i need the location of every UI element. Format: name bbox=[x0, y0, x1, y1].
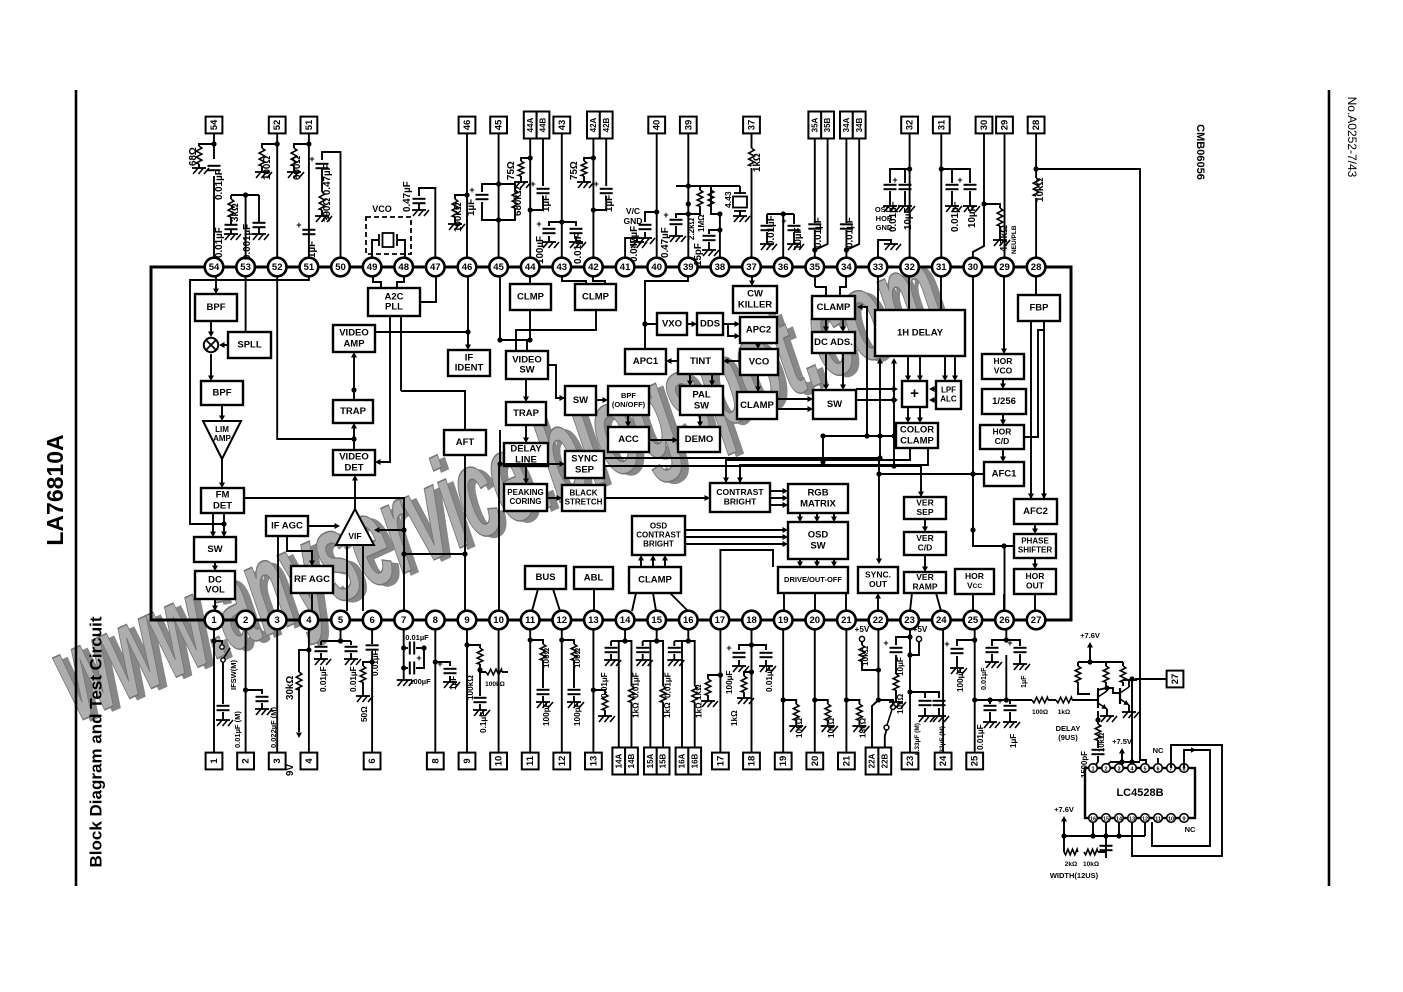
block FM DET bbox=[201, 488, 244, 513]
wire pin16 split bbox=[682, 629, 691, 747]
svg-text:TINT: TINT bbox=[690, 356, 711, 367]
wire 35A to pin35 bbox=[812, 139, 817, 258]
code CMB06056 bbox=[1194, 124, 1206, 180]
block BPF upper bbox=[195, 294, 237, 321]
svg-text:27: 27 bbox=[1031, 615, 1042, 626]
svg-text:15: 15 bbox=[1103, 816, 1109, 822]
svg-text:24: 24 bbox=[936, 615, 947, 626]
LC4528B bottom pin 12 bbox=[1141, 814, 1150, 823]
svg-text:4: 4 bbox=[306, 615, 312, 626]
svg-text:1µF: 1µF bbox=[1009, 734, 1018, 748]
wire pin25 to terminal25 bbox=[972, 629, 977, 752]
resistor 10kohm pin28 bbox=[1033, 178, 1046, 202]
ground Q2 emitter bbox=[1122, 705, 1139, 718]
wire pin33 to 1HDELAY bbox=[877, 277, 879, 310]
svg-text:30: 30 bbox=[979, 120, 990, 131]
svg-text:52: 52 bbox=[272, 262, 283, 273]
wire A2CPLL right to pin47 bbox=[420, 277, 436, 302]
terminal 44B bbox=[537, 112, 550, 139]
wire pin11 to terminal11 bbox=[528, 629, 533, 752]
wire BUS to pins bbox=[532, 589, 560, 611]
wire junction bar y436 bbox=[820, 433, 894, 438]
resistor 30kohm pin4 bbox=[285, 650, 309, 700]
svg-text:AFT: AFT bbox=[456, 437, 475, 448]
pin 49 bbox=[363, 258, 382, 277]
block DELAY LINE bbox=[504, 443, 548, 466]
svg-text:FM: FM bbox=[216, 490, 230, 501]
block TINT bbox=[678, 349, 723, 374]
svg-text:+: + bbox=[892, 175, 897, 185]
terminal 54 bbox=[206, 117, 223, 134]
resistor 1kohm pin16 bbox=[688, 641, 703, 748]
svg-text:ABL: ABL bbox=[584, 573, 604, 584]
svg-text:1: 1 bbox=[209, 758, 220, 764]
wire RFAGC to pin4 bbox=[311, 593, 313, 611]
wire pin2 to terminal2 bbox=[243, 629, 248, 752]
block CLAMP top right bbox=[812, 296, 855, 319]
wire LPF to PLUS bbox=[929, 386, 936, 403]
wire pin53 cluster bbox=[231, 192, 259, 257]
terminal 35B bbox=[821, 112, 834, 139]
wire terminal37 to pin37 bbox=[751, 133, 753, 257]
block SW left bbox=[194, 537, 236, 562]
capacitor 1500pF delay bbox=[1080, 740, 1105, 778]
wire TINT PALSW bbox=[687, 374, 715, 386]
right page rule bbox=[1328, 90, 1331, 886]
svg-text:VCO: VCO bbox=[994, 365, 1013, 375]
svg-text:1µF: 1µF bbox=[466, 199, 477, 216]
supply +7.6V top bbox=[1080, 631, 1100, 662]
svg-text:27: 27 bbox=[1170, 674, 1181, 685]
svg-text:680kΩ: 680kΩ bbox=[513, 186, 524, 216]
supply +5V pin22 bbox=[855, 625, 870, 645]
terminal 35A bbox=[808, 112, 821, 139]
svg-text:21: 21 bbox=[841, 755, 852, 766]
block CONTRAST BRIGHT bbox=[710, 483, 770, 512]
block ABL bbox=[574, 567, 613, 589]
svg-text:39: 39 bbox=[683, 262, 694, 273]
svg-text:SEP: SEP bbox=[916, 507, 933, 517]
wire terminal51 to pin51 bbox=[306, 133, 311, 257]
block PAL SW bbox=[680, 386, 723, 415]
svg-text:+5V: +5V bbox=[855, 625, 870, 634]
svg-text:0.01µF: 0.01µF bbox=[979, 667, 988, 690]
svg-text:1µF: 1µF bbox=[1019, 675, 1028, 688]
svg-text:KILLER: KILLER bbox=[738, 299, 772, 310]
svg-text:100kΩ: 100kΩ bbox=[466, 675, 475, 700]
svg-text:+: + bbox=[296, 220, 301, 230]
block IF AGC bbox=[266, 516, 308, 536]
svg-text:100Ω: 100Ω bbox=[262, 156, 273, 180]
svg-text:23: 23 bbox=[905, 756, 916, 767]
svg-text:+: + bbox=[1007, 638, 1012, 648]
resistor 100ohm pin12 bbox=[562, 640, 582, 668]
capacitor 0.01uF pin31 bbox=[941, 169, 962, 232]
block CW KILLER bbox=[733, 286, 777, 313]
block BPF lower bbox=[201, 381, 243, 405]
svg-text:+: + bbox=[663, 210, 668, 220]
block CLAMP bottom bbox=[629, 567, 681, 593]
resistor 1Mohm pin38 bbox=[697, 190, 714, 232]
capacitor 10uF pin23 bbox=[883, 637, 910, 676]
wire pin3 to IFAGC bbox=[277, 536, 279, 611]
svg-text:0.01µF: 0.01µF bbox=[950, 201, 961, 232]
block DRIVE/OUT-OFF bbox=[778, 567, 848, 593]
wire VIDEODET to TRAP bbox=[351, 423, 357, 450]
svg-text:PAL: PAL bbox=[692, 390, 710, 401]
capacitor 0.01uF pin34 bbox=[840, 139, 859, 251]
svg-text:10kΩ: 10kΩ bbox=[1083, 861, 1099, 868]
supply +7.5V LC bbox=[1106, 737, 1140, 768]
svg-text:BRIGHT: BRIGHT bbox=[643, 540, 674, 549]
wire pin26 cluster bbox=[1004, 629, 1009, 642]
svg-text:4.43: 4.43 bbox=[723, 191, 733, 208]
pin 12 bbox=[553, 611, 572, 630]
terminal 3 bbox=[269, 753, 286, 770]
resistor 10kΩ pin19 bbox=[783, 700, 806, 738]
wire pin43 to CLMP2 bbox=[562, 277, 586, 284]
svg-text:VER: VER bbox=[916, 497, 933, 507]
block VER C/D bbox=[904, 532, 946, 555]
wire pin25 bar bbox=[975, 697, 1010, 702]
svg-text:0.01µF: 0.01µF bbox=[766, 215, 777, 246]
wire SYNCSEP to VERSEP bbox=[604, 466, 924, 497]
svg-text:10µF: 10µF bbox=[903, 207, 914, 230]
svg-text:0.33µF (M): 0.33µF (M) bbox=[914, 723, 921, 755]
pin 1 bbox=[205, 611, 224, 630]
wire pin3 to terminal3 bbox=[276, 629, 278, 752]
svg-text:40: 40 bbox=[651, 262, 662, 273]
wire LC pin4 rail bbox=[1129, 759, 1134, 764]
terminal 22A bbox=[866, 748, 879, 775]
wire pin54 to BPF bbox=[213, 277, 219, 294]
wire pin10 to terminal10 bbox=[498, 629, 500, 752]
svg-text:12: 12 bbox=[557, 615, 568, 626]
wire pin18 to terminal18 bbox=[749, 629, 754, 752]
wire pin32 to 1HDELAY bbox=[908, 277, 910, 310]
svg-text:CLAMP: CLAMP bbox=[638, 575, 672, 586]
block ACC bbox=[608, 427, 649, 452]
block HOR VCO bbox=[982, 354, 1024, 379]
svg-text:15B: 15B bbox=[659, 753, 668, 768]
svg-text:22A: 22A bbox=[868, 753, 877, 768]
terminal 30 bbox=[976, 117, 993, 134]
svg-text:VIF: VIF bbox=[348, 531, 361, 541]
terminal 9 bbox=[459, 753, 476, 770]
svg-text:0.01µF: 0.01µF bbox=[371, 650, 380, 676]
terminal 51 bbox=[301, 117, 318, 134]
svg-text:40: 40 bbox=[652, 120, 663, 131]
pin 31 bbox=[932, 258, 951, 277]
svg-text:34: 34 bbox=[841, 262, 852, 273]
svg-text:WIDTH(12US): WIDTH(12US) bbox=[1050, 871, 1099, 880]
svg-text:+7.6V: +7.6V bbox=[1054, 805, 1074, 814]
block BUS bbox=[525, 566, 566, 589]
resistor pin13 bbox=[593, 690, 615, 722]
capacitor 0.01uF pin53 bbox=[214, 217, 241, 258]
wire CONTRAST to RGB bbox=[770, 488, 788, 508]
capacitor 1uF pin25c bbox=[997, 696, 1020, 748]
terminal 23 bbox=[902, 753, 919, 770]
wire pin28 to LC4528 rail bbox=[1036, 169, 1146, 765]
wire RGB to OSDSW bbox=[797, 513, 837, 522]
wire DELAYLINE to PEAKING bbox=[523, 466, 529, 484]
wire OSDCB to OSDSW bbox=[685, 527, 788, 547]
svg-text:Block Diagram and Test Circuit: Block Diagram and Test Circuit bbox=[86, 616, 105, 867]
wire mixer to BPF2 bbox=[208, 354, 214, 381]
svg-text:45: 45 bbox=[494, 119, 505, 130]
svg-text:+: + bbox=[416, 653, 421, 663]
wire CLAMPmid to SW3 bbox=[777, 396, 813, 412]
capacitor 0.47uF pin39 bbox=[660, 210, 691, 258]
svg-text:1/256: 1/256 bbox=[992, 396, 1016, 407]
block VER RAMP bbox=[904, 572, 946, 593]
pin 9 bbox=[458, 611, 477, 630]
svg-text:No.A0252-7/43: No.A0252-7/43 bbox=[1345, 97, 1359, 178]
svg-text:10µF: 10µF bbox=[967, 205, 978, 228]
block VIDEO DET bbox=[333, 450, 375, 475]
capacitor 0.01uF pin18 bbox=[752, 645, 777, 692]
capacitor 100pF pin12 bbox=[567, 660, 584, 726]
block CLMP 1 bbox=[510, 284, 551, 310]
svg-text:1kΩ: 1kΩ bbox=[1058, 709, 1070, 716]
LC4528B bottom pin 16 bbox=[1089, 814, 1098, 823]
resistor 2.2kohm pin39 bbox=[686, 183, 703, 240]
svg-text:DDS: DDS bbox=[700, 319, 720, 330]
svg-text:15pF: 15pF bbox=[693, 243, 704, 266]
pin 13 bbox=[584, 611, 603, 630]
svg-text:+: + bbox=[437, 659, 442, 669]
LC4528B top pin 1 bbox=[1089, 764, 1098, 773]
svg-text:14B: 14B bbox=[627, 753, 636, 768]
wire pin23 to terminal23 bbox=[907, 629, 912, 752]
capacitor 0.01uF pin32 bbox=[883, 169, 910, 232]
wire pin26 up to AFC2 rail bbox=[1004, 546, 1006, 611]
svg-text:0.01µF: 0.01µF bbox=[214, 169, 225, 200]
svg-text:11: 11 bbox=[525, 615, 536, 626]
resistor 1kohm pin14 bbox=[625, 641, 640, 748]
svg-text:19: 19 bbox=[778, 615, 789, 626]
svg-text:1kΩ: 1kΩ bbox=[695, 702, 704, 718]
pin 38 bbox=[711, 258, 730, 277]
svg-text:2: 2 bbox=[241, 758, 252, 763]
svg-text:1µF: 1µF bbox=[541, 195, 552, 212]
wire rail x404 to pin7 bbox=[401, 530, 467, 611]
svg-text:51: 51 bbox=[304, 119, 315, 130]
resistor 75ohm pin44 bbox=[506, 155, 533, 188]
wire pin6 to terminal6 bbox=[370, 629, 375, 752]
resistor 600ohm pin51 bbox=[287, 144, 309, 180]
capacitor 1uF pin8 bbox=[435, 659, 460, 690]
wire pin26 seg bbox=[1048, 699, 1056, 701]
wire up into 1HDELAY b bbox=[891, 358, 897, 469]
svg-text:VOL: VOL bbox=[205, 585, 225, 596]
svg-text:VIDEO: VIDEO bbox=[339, 452, 369, 463]
wire terminal28 to pin28 bbox=[1034, 133, 1039, 257]
svg-text:+7.6V: +7.6V bbox=[1080, 631, 1100, 640]
pin 37 bbox=[742, 258, 761, 277]
LC4528B bottom pin 13 bbox=[1128, 814, 1137, 823]
wire pin8 to terminal8 bbox=[433, 629, 438, 752]
resistor 1kohm pin37 bbox=[749, 148, 763, 172]
svg-text:5: 5 bbox=[338, 615, 344, 626]
svg-text:11: 11 bbox=[1155, 816, 1161, 822]
svg-text:STRETCH: STRETCH bbox=[565, 498, 603, 507]
svg-text:44B: 44B bbox=[539, 117, 548, 132]
svg-text:+: + bbox=[309, 154, 314, 164]
terminal 37 bbox=[743, 117, 760, 134]
wire pin49 to A2CPLL bbox=[373, 277, 381, 288]
capacitor 0.01uF pin43 bbox=[562, 222, 586, 264]
block APC1 bbox=[625, 349, 666, 374]
wire pin13 to terminal13 bbox=[591, 629, 596, 752]
capacitor 0.047uF pin40 bbox=[629, 212, 657, 262]
terminal 45 bbox=[490, 117, 507, 134]
svg-text:21: 21 bbox=[841, 615, 852, 626]
supply +5V pin23 bbox=[907, 625, 928, 658]
terminal 20 bbox=[806, 753, 823, 770]
wire terminal32 to pin32 bbox=[907, 133, 912, 257]
svg-text:0.47µF: 0.47µF bbox=[402, 181, 413, 212]
svg-text:100µF: 100µF bbox=[535, 236, 546, 264]
pin 33 bbox=[869, 258, 888, 277]
svg-text:28: 28 bbox=[1031, 120, 1042, 131]
wire pin24 to terminal24 bbox=[942, 629, 944, 752]
svg-text:CLMP: CLMP bbox=[582, 292, 610, 303]
terminal 24 bbox=[935, 753, 952, 770]
block HOR C/D bbox=[980, 425, 1024, 449]
capacitor 0.01uF pin1 bbox=[216, 662, 242, 748]
terminal 40 bbox=[648, 117, 665, 134]
terminal 6 bbox=[364, 753, 381, 770]
terminal 52 bbox=[269, 117, 286, 134]
wire CLMP1 to VIDEOSW bbox=[527, 310, 532, 343]
svg-text:31: 31 bbox=[936, 262, 947, 273]
resistor 10kohm width bbox=[1083, 836, 1106, 868]
svg-text:2kΩ: 2kΩ bbox=[1065, 861, 1077, 868]
capacitor 0.47uF pin47 bbox=[402, 181, 435, 257]
svg-text:3: 3 bbox=[1117, 766, 1120, 772]
svg-text:16B: 16B bbox=[690, 753, 699, 768]
block DDS bbox=[697, 313, 723, 335]
block 1H DELAY bbox=[875, 310, 965, 356]
pin 29 bbox=[995, 258, 1014, 277]
svg-text:DELAY: DELAY bbox=[1056, 724, 1081, 733]
pin 52 bbox=[268, 258, 287, 277]
wire pin50 branch bbox=[322, 152, 341, 258]
svg-text:TRAP: TRAP bbox=[513, 408, 540, 419]
wire APC1 top to VXO bbox=[642, 321, 657, 349]
pin 22 bbox=[869, 611, 888, 630]
resistor 1kohm pin18 bbox=[730, 669, 754, 726]
wire pin53 into SPLL bbox=[245, 277, 247, 332]
resistor 100ohm pin52 bbox=[255, 144, 277, 180]
capacitor 1uF pin26 b bbox=[1006, 638, 1030, 688]
LC4528B top pin 8 bbox=[1180, 764, 1189, 773]
svg-text:1H DELAY: 1H DELAY bbox=[897, 328, 944, 339]
transistor Q2 bbox=[1107, 680, 1129, 705]
wire pin4 to terminal4 bbox=[306, 629, 311, 752]
resistor 18kΩ pin21 bbox=[846, 700, 869, 738]
svg-text:+: + bbox=[536, 219, 541, 229]
pin 23 bbox=[900, 611, 919, 630]
svg-text:1µF: 1µF bbox=[449, 676, 458, 690]
capacitor 0.01uF pin5 b bbox=[344, 647, 361, 692]
amp LIM AMP bbox=[203, 421, 241, 459]
block AFC2 bbox=[1014, 499, 1057, 524]
svg-text:CONTRAST: CONTRAST bbox=[636, 531, 681, 540]
svg-text:35A: 35A bbox=[810, 117, 819, 132]
wire pin19 to terminal19 bbox=[781, 629, 786, 752]
wire pin12 to terminal12 bbox=[559, 629, 564, 752]
terminal 22B bbox=[878, 748, 891, 775]
terminal 14B bbox=[625, 748, 638, 775]
wire terminal29 to pin29 bbox=[1004, 133, 1006, 257]
terminal 21 bbox=[838, 753, 855, 770]
svg-text:75Ω: 75Ω bbox=[506, 161, 517, 180]
svg-text:6: 6 bbox=[369, 615, 374, 626]
wire IFAGC to VIF bbox=[308, 523, 340, 529]
capacitor 1uF pin51 bbox=[296, 220, 318, 258]
svg-text:IDENT: IDENT bbox=[455, 363, 484, 374]
svg-text:AMP: AMP bbox=[343, 338, 365, 349]
svg-text:52: 52 bbox=[272, 120, 283, 131]
wire pin30 rail to AFC1 bbox=[970, 277, 984, 533]
resistor 4.7kohm pin30 bbox=[984, 204, 1018, 254]
wire BLACKSTRETCH to CONTRAST bbox=[605, 495, 710, 501]
wire pin36 cluster bbox=[767, 211, 794, 257]
svg-text:LIM: LIM bbox=[215, 425, 229, 434]
svg-text:11: 11 bbox=[525, 755, 536, 766]
svg-text:10kΩ: 10kΩ bbox=[861, 645, 870, 666]
pin 41 bbox=[616, 258, 635, 277]
wire VCO to CLAMP mid bbox=[755, 375, 761, 392]
capacitor 0.47uF pin50 bbox=[309, 154, 328, 192]
wire pin7 cluster bbox=[401, 629, 406, 676]
resistor bias c bbox=[1120, 666, 1126, 686]
capacitor 0.01uF pin6 bbox=[366, 645, 380, 676]
svg-text:+: + bbox=[957, 175, 962, 185]
svg-text:RAMP: RAMP bbox=[912, 581, 937, 591]
terminal 14A bbox=[612, 748, 625, 775]
svg-text:54: 54 bbox=[209, 119, 220, 130]
resistor 100kohm pin9 a bbox=[466, 645, 483, 700]
block PHASE SHIFTER bbox=[1014, 534, 1056, 558]
svg-text:AMP: AMP bbox=[213, 434, 231, 443]
pin 18 bbox=[742, 611, 761, 630]
resistor 10kΩ pin20 bbox=[815, 700, 838, 738]
block PLUS adder bbox=[902, 381, 927, 407]
wire pin35 to CLAMP bbox=[815, 277, 826, 296]
svg-text:12: 12 bbox=[1142, 816, 1148, 822]
svg-text:42: 42 bbox=[588, 262, 599, 273]
svg-text:LC4528B: LC4528B bbox=[1116, 787, 1163, 799]
wire ABL to pin13 bbox=[593, 589, 595, 611]
pin 11 bbox=[521, 611, 540, 630]
terminal 2 bbox=[237, 753, 254, 770]
terminal 16B bbox=[688, 748, 701, 775]
transistor Q1 bbox=[1078, 685, 1110, 709]
block DC VOL bbox=[195, 571, 235, 599]
terminal 17 bbox=[712, 753, 729, 770]
svg-text:+5V: +5V bbox=[913, 625, 928, 634]
svg-text:0.47µF: 0.47µF bbox=[660, 227, 671, 258]
capacitor 1uF pin45 loop bbox=[466, 184, 499, 220]
svg-text:38: 38 bbox=[715, 262, 726, 273]
svg-text:ALC: ALC bbox=[940, 395, 957, 404]
svg-text:28: 28 bbox=[1031, 262, 1042, 273]
block AFT bbox=[444, 430, 486, 455]
